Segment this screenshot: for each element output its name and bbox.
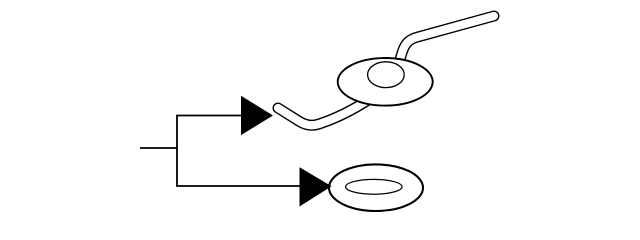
washer hole <box>346 179 402 194</box>
disc hole <box>368 62 405 88</box>
link rod <box>278 16 494 125</box>
node arrow top <box>241 96 273 135</box>
node arrow bottom <box>300 167 332 206</box>
wire stub <box>140 147 177 149</box>
disc grommet <box>338 58 433 106</box>
wire bracket <box>177 116 301 187</box>
washer outer <box>329 164 423 211</box>
